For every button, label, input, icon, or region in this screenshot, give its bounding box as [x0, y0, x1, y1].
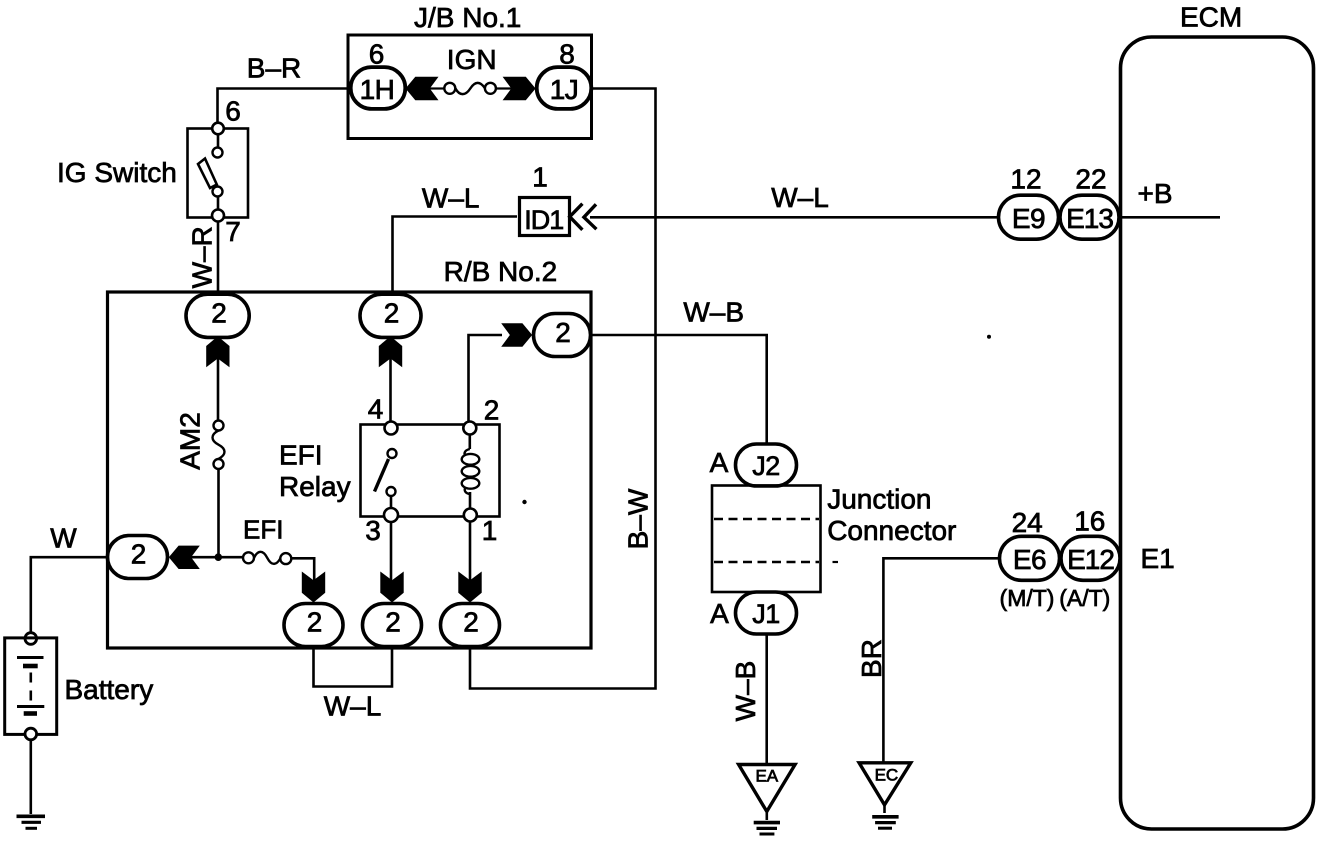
IG Switch box: [188, 129, 249, 218]
svg-text:W: W: [50, 523, 77, 554]
svg-text:24: 24: [1012, 507, 1043, 538]
battery plate short top: [23, 664, 38, 669]
connector 2 (bottom 3): [441, 604, 500, 647]
EC ground triangle: [859, 763, 911, 805]
switch lever: [198, 159, 217, 189]
EFI Relay box: [361, 425, 500, 517]
connector E6: [1000, 536, 1060, 580]
wire to AM2 fuse: [217, 357, 220, 421]
svg-text:Relay: Relay: [279, 471, 351, 502]
wire to ground bars: [765, 812, 768, 821]
wire B-R from 1H to IG switch: [218, 89, 351, 124]
svg-text:J2: J2: [752, 451, 780, 481]
wire pin1 down to arrow: [469, 522, 472, 582]
svg-text:4: 4: [368, 394, 384, 425]
wire from AM2 to junction: [217, 469, 220, 557]
svg-text:12: 12: [1010, 163, 1041, 194]
relay switch lever: [375, 459, 389, 492]
ECM box: [1121, 37, 1314, 829]
battery plate short bottom: [24, 711, 37, 716]
svg-text:8: 8: [559, 39, 575, 70]
terminal circle top: [212, 123, 224, 135]
stray dash: [833, 561, 839, 563]
connector 2 (bottom 2): [363, 604, 422, 647]
arrow left into connector: [169, 546, 200, 569]
wire: [217, 134, 220, 148]
EA ground triangle: [739, 765, 796, 812]
terminal circle bottom: [212, 210, 224, 222]
arrow right toward 1J: [503, 77, 536, 100]
svg-text:BR: BR: [856, 639, 887, 678]
relay switch contact circle: [387, 487, 396, 496]
ground symbol: [17, 814, 46, 818]
relay switch contact circle: [388, 449, 397, 458]
arrow down into bottom connector 2: [380, 572, 403, 603]
svg-text:B–R: B–R: [247, 53, 301, 84]
svg-text:W–L: W–L: [771, 182, 829, 213]
wire contact to pin 3: [390, 496, 393, 508]
arrow up into connector: [206, 336, 229, 367]
W-L wire to ID1: [393, 217, 518, 293]
svg-text:16: 16: [1074, 506, 1105, 537]
svg-text:W–L: W–L: [324, 691, 382, 722]
svg-text:J/B No.1: J/B No.1: [414, 2, 521, 33]
svg-text:W–B: W–B: [730, 661, 761, 722]
svg-text:IGN: IGN: [447, 44, 497, 75]
EFI fuse symbol: [243, 552, 254, 563]
svg-text:A: A: [710, 447, 729, 478]
wire W-L to E9: [590, 216, 999, 219]
svg-text:R/B No.2: R/B No.2: [444, 256, 558, 287]
svg-text:2: 2: [211, 297, 227, 328]
svg-text:W–R: W–R: [187, 226, 218, 288]
ID1 connector box: [520, 198, 570, 236]
relay coil: [468, 435, 471, 450]
wire W-B from connector to J2: [591, 335, 767, 444]
connector 2 (top left): [186, 294, 249, 337]
ground symbol EC: [872, 815, 898, 819]
connector 1J: [537, 67, 592, 109]
svg-text:ECM: ECM: [1180, 2, 1242, 33]
dashed line 2: [714, 561, 819, 563]
svg-text:EC: EC: [875, 766, 899, 785]
svg-text:IG Switch: IG Switch: [57, 157, 177, 188]
battery terminal circle bottom: [25, 728, 37, 740]
svg-text:2: 2: [463, 607, 479, 638]
arrow right into connector: [501, 323, 532, 346]
wire from relay pin 2 up to arrow: [469, 335, 503, 422]
svg-text:Junction: Junction: [827, 483, 931, 514]
connector E12: [1061, 536, 1120, 580]
wire: [217, 197, 220, 211]
svg-text:2: 2: [131, 539, 147, 570]
AM2 fuse symbol: [214, 421, 224, 431]
connector E9: [999, 195, 1059, 239]
svg-text:3: 3: [365, 515, 381, 546]
wire W-R: [217, 222, 220, 293]
svg-text:1: 1: [482, 515, 498, 546]
double chevron arrows: [570, 204, 583, 230]
wire from 1J to B-W line down to bottom connector: [470, 89, 656, 689]
svg-text:AM2: AM2: [175, 412, 206, 470]
+B wire inside ECM: [1119, 216, 1220, 219]
stray dot: [987, 335, 991, 339]
dashed line 1: [714, 518, 819, 520]
arrow left toward 1H: [406, 77, 439, 100]
svg-text:+B: +B: [1137, 178, 1172, 209]
battery box: [5, 638, 57, 735]
svg-text:2: 2: [384, 297, 400, 328]
svg-text:1: 1: [532, 161, 548, 192]
svg-text:(A/T): (A/T): [1059, 585, 1110, 611]
svg-text:E12: E12: [1067, 544, 1114, 575]
IGN fuse symbol: [429, 87, 445, 89]
relay terminal pin 1: [464, 509, 477, 522]
connector 1H: [351, 67, 406, 109]
switch contact circle: [213, 148, 223, 158]
svg-text:22: 22: [1075, 163, 1106, 194]
BR wire from E6 down to EC ground: [883, 558, 998, 762]
svg-text:E9: E9: [1012, 203, 1045, 234]
svg-text:2: 2: [307, 607, 323, 638]
connector E13: [1060, 195, 1119, 239]
junction connector box: [712, 486, 821, 593]
connector J2: [736, 444, 797, 486]
relay terminal pin 2: [463, 422, 476, 435]
connector 2 (EFI): [108, 536, 168, 579]
svg-text:E6: E6: [1013, 544, 1046, 575]
battery plate long top: [17, 656, 44, 659]
svg-text:W–B: W–B: [683, 297, 744, 328]
svg-text:6: 6: [369, 39, 385, 70]
svg-text:2: 2: [555, 317, 571, 348]
connector 2 (top right): [534, 314, 591, 357]
switch contact circle: [213, 187, 223, 197]
relay terminal pin 3: [384, 508, 398, 522]
stray dot: [522, 500, 526, 504]
connector J1: [736, 592, 797, 634]
svg-text:1J: 1J: [550, 74, 579, 105]
battery plate long bottom: [17, 705, 44, 708]
svg-text:6: 6: [225, 96, 241, 127]
svg-text:W–L: W–L: [422, 183, 480, 214]
ground symbol EA: [754, 821, 780, 825]
arrow down into bottom connector 1: [302, 572, 325, 603]
wire battery to ground: [29, 740, 32, 814]
wire J1 to EA ground: [765, 634, 768, 764]
svg-text:B–W: B–W: [623, 488, 654, 549]
svg-text:2: 2: [484, 395, 500, 426]
relay terminal pin 4: [385, 422, 398, 435]
svg-text:ID1: ID1: [524, 205, 563, 235]
svg-text:1H: 1H: [360, 74, 395, 105]
svg-text:A: A: [710, 598, 729, 629]
wire pin3 down to arrow: [390, 522, 393, 581]
svg-text:7: 7: [225, 216, 241, 247]
arrow up into connector: [379, 336, 402, 367]
wire arrow to EFI fuse: [190, 556, 243, 559]
svg-text:J1: J1: [752, 599, 780, 629]
svg-text:Battery: Battery: [65, 674, 154, 705]
J/B No.1 box: [348, 35, 592, 139]
svg-text:EA: EA: [755, 766, 778, 785]
arrow down into bottom connector 3: [458, 572, 481, 603]
battery dashed center line: [29, 673, 32, 703]
svg-text:EFI: EFI: [279, 440, 323, 471]
svg-text:Connector: Connector: [827, 515, 956, 546]
svg-text:E13: E13: [1066, 203, 1113, 234]
wire to relay pin 4: [389, 357, 392, 422]
W-L loop wire below box: [314, 647, 393, 687]
wire to ground bars: [883, 805, 886, 813]
connector 2 (top middle): [360, 294, 421, 337]
wire fuse to down arrow: [291, 558, 314, 581]
svg-text:2: 2: [385, 607, 401, 638]
R/B No.2 box: [108, 292, 592, 648]
connector 2 (bottom 1): [284, 604, 343, 647]
wire from battery to EFI connector: [31, 557, 107, 634]
svg-text:EFI: EFI: [243, 515, 283, 545]
battery terminal circle top: [25, 633, 37, 645]
junction dot: [215, 553, 223, 561]
svg-text:(M/T): (M/T): [1000, 585, 1055, 611]
svg-text:E1: E1: [1140, 543, 1174, 574]
